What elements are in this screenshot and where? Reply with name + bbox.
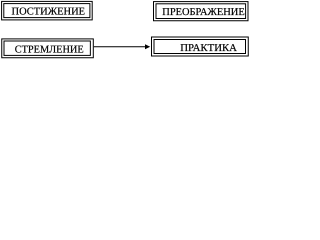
- arrow shaft СТРЕМЛЕНИЕ to ПРАКТИКА: [94, 46, 146, 48]
- svg-text:СТРЕМЛЕНИЕ: СТРЕМЛЕНИЕ: [15, 45, 84, 56]
- box СТРЕМЛЕНИЕ inner border: [4, 41, 90, 55]
- svg-text:ПРЕОБРАЖЕНИЕ: ПРЕОБРАЖЕНИЕ: [162, 7, 244, 18]
- box СТРЕМЛЕНИЕ outer border: [2, 39, 94, 58]
- background: [0, 0, 254, 64]
- box ПРЕОБРАЖЕНИЕ outer border: [154, 2, 249, 21]
- box ПОСТИЖЕНИЕ inner border: [4, 4, 90, 18]
- svg-text:ПОСТИЖЕНИЕ: ПОСТИЖЕНИЕ: [12, 7, 86, 18]
- box ПРЕОБРАЖЕНИЕ inner border: [156, 4, 246, 19]
- arrowhead: [145, 44, 150, 49]
- box ПОСТИЖЕНИЕ outer border: [2, 1, 93, 20]
- box ПРАКТИКА outer border: [152, 37, 249, 56]
- box ПРАКТИКА inner border: [154, 40, 246, 54]
- svg-text:ПРАКТИКА: ПРАКТИКА: [180, 43, 237, 54]
